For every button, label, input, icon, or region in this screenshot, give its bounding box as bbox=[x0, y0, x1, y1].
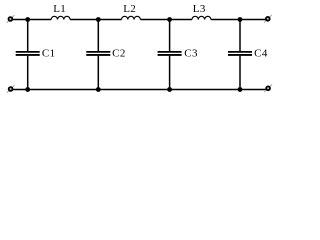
inductor L1 bbox=[51, 16, 70, 19]
node D (junction dot top 4) bbox=[238, 17, 243, 22]
node C (junction dot top 3) bbox=[167, 17, 172, 22]
wire top rail: L2 to L3 bbox=[140, 19, 192, 21]
inductor L2 bbox=[122, 16, 141, 19]
wire bottom rail bbox=[13, 89, 266, 91]
svg-text:C4: C4 bbox=[254, 48, 268, 60]
node H (junction dot bottom 4) bbox=[238, 87, 243, 92]
capacitor C1 bbox=[16, 20, 40, 90]
wire top rail: terminal to L1 bbox=[13, 19, 52, 21]
wire top rail: L3 to right terminal bbox=[211, 19, 266, 21]
svg-text:C2: C2 bbox=[112, 48, 126, 60]
svg-text:C1: C1 bbox=[42, 48, 56, 60]
svg-text:L1: L1 bbox=[53, 3, 66, 15]
node B (junction dot top 2) bbox=[96, 17, 101, 22]
svg-text:C3: C3 bbox=[184, 48, 198, 60]
node E (junction dot bottom 1) bbox=[25, 87, 30, 92]
node G (junction dot bottom 3) bbox=[167, 87, 172, 92]
inductor L3 bbox=[192, 16, 211, 19]
wire top rail: L1 to L2 bbox=[70, 19, 121, 21]
terminal P3 (bottom-left port) bbox=[7, 85, 15, 93]
node F (junction dot bottom 2) bbox=[96, 87, 101, 92]
svg-text:L3: L3 bbox=[193, 3, 206, 15]
node A (junction dot top 1) bbox=[25, 17, 30, 22]
capacitor C4 bbox=[228, 20, 252, 90]
terminal P4 (bottom-right port) bbox=[264, 84, 272, 92]
capacitor C3 bbox=[158, 20, 182, 90]
terminal P2 (top-right port) bbox=[264, 15, 272, 23]
capacitor C2 bbox=[86, 20, 110, 90]
terminal P1 (top-left port) bbox=[7, 15, 15, 23]
svg-text:L2: L2 bbox=[123, 3, 136, 15]
